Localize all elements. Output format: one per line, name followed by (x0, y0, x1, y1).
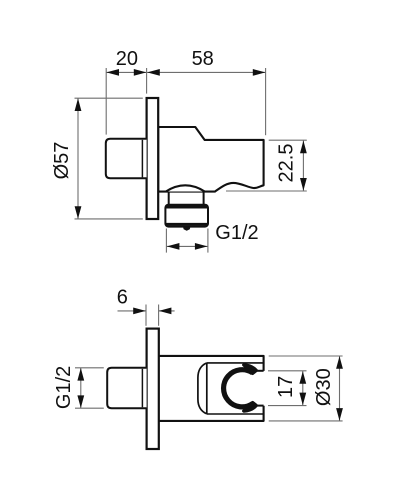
clip tip lines (bottom view) (254, 371, 264, 406)
dimension G1/2 (top view) (166, 222, 258, 253)
svg-text:20: 20 (116, 48, 138, 70)
outlet nipple (top view) (183, 227, 190, 231)
cup rim lines (bottom view) (207, 363, 264, 414)
wall flange (bottom view) (147, 329, 159, 449)
outlet cylinder (top view) (169, 192, 204, 205)
dimension 22.5 (226, 140, 307, 191)
svg-text:Ø30: Ø30 (313, 368, 335, 406)
dimension 17 (268, 371, 307, 406)
dimension diameter 57 (51, 98, 143, 219)
dimension 6 (117, 287, 175, 326)
dimension diameter 30 (269, 356, 343, 421)
svg-text:G1/2: G1/2 (215, 222, 258, 244)
outlet dome (top view) (166, 185, 205, 191)
holder tube outline (bottom view) (159, 356, 264, 421)
svg-text:58: 58 (192, 48, 214, 70)
C-clip of handset holder (bottom view) (224, 365, 257, 411)
svg-text:G1/2: G1/2 (53, 366, 75, 409)
hose nut (top view) (165, 205, 208, 227)
threaded wall connector (top view) (106, 139, 147, 179)
threaded wall connector (bottom view) (107, 368, 146, 409)
dimension G1/2 (bottom view) (53, 366, 104, 409)
dimension 58 (147, 48, 266, 135)
cup cap face (bottom view) (198, 363, 207, 414)
dimension 20 (106, 48, 146, 135)
svg-text:17: 17 (275, 376, 297, 398)
body of holder (top view) (158, 127, 263, 192)
svg-text:6: 6 (117, 287, 128, 309)
svg-text:Ø57: Ø57 (51, 142, 73, 180)
wall flange (top view) (147, 98, 159, 219)
svg-text:22.5: 22.5 (276, 144, 298, 183)
